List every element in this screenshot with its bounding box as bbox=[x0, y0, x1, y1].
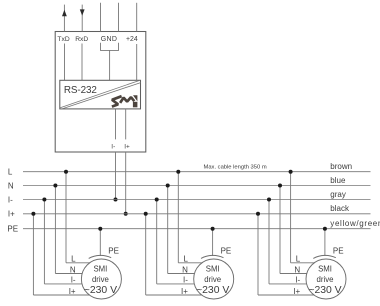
wire drive2 N horizontal bbox=[168, 273, 195, 275]
wire drive1 L horizontal bbox=[66, 262, 90, 264]
svg-text:brown: brown bbox=[330, 162, 352, 171]
bus PE bbox=[23, 228, 371, 230]
wire drive3 PE drop bbox=[324, 229, 326, 256]
svg-text:N: N bbox=[294, 265, 300, 274]
svg-text:SMI: SMI bbox=[206, 264, 220, 273]
wire drive1 I- drop bbox=[43, 200, 45, 284]
wire TxD inside bbox=[64, 44, 66, 81]
svg-text:I-: I- bbox=[295, 276, 300, 285]
wire drive2 I- drop bbox=[156, 200, 158, 284]
wire GND-b top bbox=[118, 3, 120, 32]
wire drive1 I+ horizontal bbox=[33, 294, 89, 296]
wire I- from box to bus bbox=[115, 152, 117, 200]
wire drive3 N horizontal bbox=[280, 273, 307, 275]
junction drive2 N bbox=[166, 184, 170, 188]
junction drive2 I+ bbox=[144, 212, 148, 216]
junction drive1 L bbox=[64, 170, 68, 174]
bus L bbox=[23, 171, 371, 173]
svg-text:N: N bbox=[182, 265, 188, 274]
svg-text:L: L bbox=[183, 255, 188, 264]
bus N bbox=[23, 185, 371, 187]
wire drive1 PE drop bbox=[99, 229, 101, 256]
wire drive1 L drop bbox=[65, 172, 67, 263]
junction drive1 I+ bbox=[31, 212, 35, 216]
junction drive3 L bbox=[289, 170, 293, 174]
svg-text:GND: GND bbox=[101, 36, 117, 43]
svg-text:PE: PE bbox=[108, 247, 119, 256]
svg-text:SMI: SMI bbox=[93, 264, 107, 273]
junction interface I- bbox=[114, 198, 118, 202]
svg-text:black: black bbox=[330, 204, 350, 213]
svg-text:I-: I- bbox=[183, 276, 188, 285]
svg-text:L: L bbox=[296, 255, 301, 264]
GND merge bracket bbox=[101, 43, 119, 51]
diagonal separator line 2 bbox=[61, 83, 141, 110]
wire drive1 I- horizontal bbox=[44, 283, 82, 285]
svg-text:N: N bbox=[70, 265, 76, 274]
svg-text:~230 V: ~230 V bbox=[84, 285, 117, 296]
svg-text:drive: drive bbox=[204, 275, 221, 284]
wire +24 top bbox=[136, 3, 138, 32]
wire I+ from box to bus bbox=[125, 152, 127, 214]
wire drive2 N drop bbox=[167, 186, 169, 274]
wire drive2 L horizontal bbox=[178, 262, 202, 264]
wire drive2 I+ horizontal bbox=[146, 294, 202, 296]
wire GND-a top bbox=[100, 3, 102, 32]
wire GND merged bbox=[109, 50, 111, 80]
svg-text:drive: drive bbox=[317, 275, 334, 284]
svg-text:I-: I- bbox=[71, 276, 76, 285]
wire drive2 PE drop bbox=[212, 229, 214, 256]
svg-text:gray: gray bbox=[330, 190, 346, 199]
wire drive1 N horizontal bbox=[55, 273, 82, 275]
junction drive2 I- bbox=[155, 198, 159, 202]
junction drive3 I- bbox=[267, 198, 271, 202]
arrowhead RxD (down) bbox=[80, 9, 85, 15]
wire drive2 L drop bbox=[177, 172, 179, 263]
bus I+ bbox=[23, 213, 371, 215]
wire drive3 N drop bbox=[279, 186, 281, 274]
svg-text:+24: +24 bbox=[126, 36, 138, 43]
svg-text:N: N bbox=[8, 181, 14, 190]
wire drive3 I+ drop bbox=[257, 214, 259, 295]
wire drive2 I+ drop bbox=[145, 214, 147, 295]
svg-text:PE: PE bbox=[333, 247, 344, 256]
junction drive2 PE bbox=[211, 227, 215, 231]
wire drive3 L horizontal bbox=[291, 262, 315, 264]
wire drive3 I+ horizontal bbox=[258, 294, 314, 296]
junction drive3 N bbox=[278, 184, 282, 188]
RS-232 converter box bbox=[60, 80, 141, 109]
wire drive3 L drop bbox=[290, 172, 292, 263]
svg-text:SMI: SMI bbox=[318, 264, 332, 273]
svg-text:RS-232: RS-232 bbox=[64, 85, 97, 96]
wire I- inside box bbox=[115, 109, 117, 139]
motor drive M1 circle bbox=[81, 259, 121, 299]
wire drive1 I+ drop bbox=[32, 214, 34, 295]
wire drive3 I- horizontal bbox=[269, 283, 307, 285]
wire drive2 I- horizontal bbox=[157, 283, 195, 285]
svg-text:drive: drive bbox=[92, 275, 109, 284]
wire drive1 N drop bbox=[54, 186, 56, 274]
wire RxD inside bbox=[81, 44, 83, 81]
svg-text:yellow/green: yellow/green bbox=[330, 219, 380, 228]
motor drive M3 circle bbox=[306, 259, 346, 299]
drive1 PE arc bbox=[89, 255, 112, 258]
wire RxD top bbox=[81, 5, 83, 32]
wire TxD top bbox=[63, 5, 65, 32]
svg-text:I-: I- bbox=[8, 195, 13, 204]
svg-text:~230 V: ~230 V bbox=[196, 285, 229, 296]
interface unit box U1 bbox=[55, 32, 146, 153]
svg-text:I+: I+ bbox=[181, 287, 188, 296]
svg-text:blue: blue bbox=[330, 176, 346, 185]
svg-text:I-: I- bbox=[111, 144, 115, 151]
svg-text:PE: PE bbox=[7, 225, 18, 234]
svg-text:I+: I+ bbox=[124, 144, 130, 151]
drive3 PE arc bbox=[313, 255, 336, 258]
bus I- bbox=[23, 199, 371, 201]
svg-text:L: L bbox=[71, 255, 76, 264]
junction drive1 I- bbox=[42, 198, 46, 202]
drive2 PE arc bbox=[201, 255, 224, 258]
svg-text:L: L bbox=[8, 168, 13, 177]
svg-text:PE: PE bbox=[221, 247, 232, 256]
junction drive3 I+ bbox=[256, 212, 260, 216]
svg-text:~230 V: ~230 V bbox=[308, 285, 341, 296]
svg-text:I+: I+ bbox=[8, 210, 15, 219]
junction interface I+ bbox=[124, 212, 128, 216]
arrowhead TxD (up) bbox=[62, 10, 67, 16]
svg-text:I+: I+ bbox=[69, 287, 76, 296]
junction drive3 PE bbox=[323, 227, 327, 231]
wire I+ inside box bbox=[125, 109, 127, 139]
svg-text:I+: I+ bbox=[293, 287, 300, 296]
diagonal separator line 1 bbox=[60, 80, 140, 108]
motor drive M2 circle bbox=[194, 259, 234, 299]
junction drive2 L bbox=[176, 170, 180, 174]
svg-text:RxD: RxD bbox=[75, 36, 88, 43]
wire drive3 I- drop bbox=[268, 200, 270, 284]
svg-text:Max. cable length 350 m: Max. cable length 350 m bbox=[204, 164, 267, 170]
SMI logo bbox=[112, 96, 134, 106]
junction drive1 PE bbox=[98, 227, 102, 231]
svg-text:TxD: TxD bbox=[57, 36, 69, 43]
junction drive1 N bbox=[53, 184, 57, 188]
wire +24 inside bbox=[136, 44, 138, 80]
